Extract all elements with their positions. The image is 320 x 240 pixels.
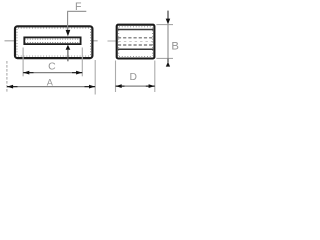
slot tick texture bottom	[25, 42, 80, 44]
D dimension line black stub left	[116, 85, 125, 87]
A arrow left	[7, 85, 13, 89]
B arrow bottom stem	[167, 59, 169, 63]
D dimension line black stub right	[146, 85, 155, 87]
B extension line bottom	[156, 57, 173, 59]
centerline right segment	[82, 40, 98, 42]
C arrow right	[76, 71, 82, 75]
C extension line right	[81, 48, 83, 77]
hidden slot line lower	[118, 44, 153, 46]
side view tick texture bottom	[119, 56, 152, 58]
core body tick texture right	[90, 29, 92, 56]
D dimension line	[116, 85, 155, 87]
centerline left segment	[5, 40, 24, 42]
D extension line right	[154, 61, 156, 93]
svg-text:C: C	[48, 61, 56, 72]
B extension line top	[156, 24, 173, 26]
F leader underline	[67, 10, 86, 12]
svg-text:D: D	[129, 72, 136, 83]
svg-text:B: B	[171, 41, 179, 53]
A extension line right	[94, 60, 96, 95]
slot tick texture top	[25, 38, 80, 40]
D arrow right	[149, 84, 155, 88]
side view tick texture right	[152, 28, 154, 57]
side view chamfer line lower	[118, 48, 153, 50]
D extension line left	[115, 61, 117, 93]
C dimension line black stub left	[23, 72, 33, 74]
hidden slot line upper	[118, 37, 153, 39]
C arrow left	[23, 71, 29, 75]
slot (front view)	[24, 37, 80, 44]
F lower stem	[67, 50, 69, 62]
core body tick texture bottom	[18, 55, 90, 57]
D arrow left	[116, 84, 122, 88]
B dimension line	[167, 25, 169, 59]
side view tick texture top	[119, 26, 152, 28]
F arrow up (to slot bottom)	[66, 45, 71, 50]
side view chamfer line upper	[118, 29, 153, 31]
A dimension line black stub right	[85, 86, 96, 88]
A extension line left (dashed)	[6, 61, 8, 93]
core body tick texture top	[18, 27, 90, 29]
C extension line left	[22, 48, 24, 77]
faint center dashes	[119, 40, 153, 42]
C dimension line	[23, 72, 82, 74]
core body outline (front view)	[15, 26, 92, 58]
A dimension line black stub left	[7, 86, 18, 88]
core body tick texture left	[16, 29, 18, 56]
C dimension line black stub right	[72, 72, 82, 74]
side view tick texture left	[118, 28, 120, 57]
B arrow top tail	[167, 11, 169, 19]
B arrow top head	[166, 19, 171, 25]
F arrow down (to slot top)	[66, 30, 71, 36]
F leader vertical	[67, 11, 69, 30]
svg-text:A: A	[47, 78, 54, 88]
side view centerline stub left	[108, 40, 116, 42]
B arrow bottom head	[166, 62, 170, 67]
side view body outline	[117, 25, 155, 59]
A arrow right	[89, 85, 95, 89]
A dimension line	[7, 86, 95, 88]
